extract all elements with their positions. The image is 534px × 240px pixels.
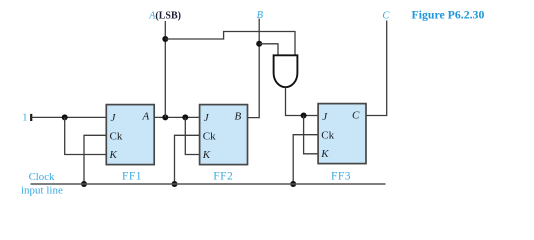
svg-text:K: K [109,149,118,161]
wire: FF2 B output riser [248,19,260,118]
junction dot A top [162,36,168,42]
wire: A to AND gate right input [165,32,295,56]
wire: AND gate output to FF3 J [286,87,319,115]
wire: FF3 Ck to clock line [293,135,318,184]
wire: FF1 A output to FF2 J [154,116,199,118]
svg-text:K: K [320,148,329,160]
svg-text:Figure P6.2.30: Figure P6.2.30 [412,8,485,22]
svg-text:Ck: Ck [110,131,123,143]
junction dot A branch [162,114,168,120]
input terminal tick [30,114,32,121]
wire: FF1 Ck to clock line [84,135,106,184]
wire: FF2 J-K tie [185,117,199,154]
junction dot FF2 J-K tie [182,114,188,120]
wire: clock input line [31,183,386,185]
svg-text:Clock: Clock [29,171,55,183]
wire: FF2 Ck to clock line [175,135,200,184]
junction dot B branch [256,41,262,47]
wire: FF1 J-K tie [65,117,107,154]
svg-text:1: 1 [22,113,27,124]
svg-text:A(LSB): A(LSB) [148,10,181,21]
flip-flop FF1 [106,105,154,183]
AND gate U1 [274,55,298,87]
junction dot FF2 clock [172,181,178,187]
wire: 1 to FF1 J [31,116,106,118]
wire: B to AND gate left input [259,44,278,56]
junction dot FF3 clock [290,181,296,187]
junction dot FF1 clock [81,181,87,187]
svg-text:B: B [235,111,242,123]
flip-flop FF3 [318,104,366,183]
junction dot FF3 J-K tie [301,113,307,119]
wire: FF3 J-K tie [304,116,319,154]
flip-flop FF2 [200,105,248,183]
wire: A vertical riser [164,21,166,117]
svg-text:C: C [382,11,390,22]
svg-text:A: A [142,111,150,123]
svg-text:C: C [352,110,360,122]
svg-text:B: B [257,10,264,21]
junction dot FF1 J-K tie [62,114,68,120]
svg-text:FF3: FF3 [331,171,351,183]
wire: FF3 C output riser [366,21,387,116]
svg-text:FF2: FF2 [213,171,233,183]
svg-text:Ck: Ck [321,130,334,142]
svg-text:input line: input line [21,184,63,196]
svg-text:K: K [202,149,211,161]
svg-text:FF1: FF1 [122,171,142,183]
svg-text:Ck: Ck [203,131,216,143]
